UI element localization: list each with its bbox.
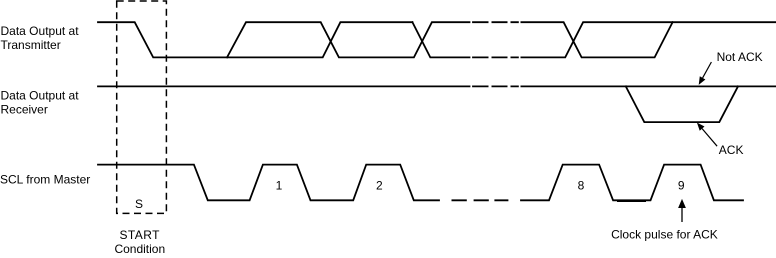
svg-text:2: 2 (376, 178, 383, 192)
wire: SDA receiver high line right section (Not ACK level) (521, 85, 776, 87)
svg-text:Clock pulse for ACK: Clock pulse for ACK (611, 228, 718, 242)
svg-text:ACK: ACK (719, 143, 744, 157)
svg-text:Transmitter: Transmitter (1, 38, 61, 52)
wire: SDA transmitter high rail, START fall, low-to-high crossings (98, 22, 412, 57)
wire: SCL high start, clock pulses 1 and 2 (98, 165, 439, 201)
wire: SDA receiver ACK low pulse (626, 86, 738, 122)
arrow: clock pulse for ACK pointer (678, 199, 686, 222)
svg-text:Data Output at: Data Output at (1, 89, 80, 103)
svg-text:8: 8 (578, 178, 585, 192)
wire: SDA transmitter crossover-2 falling edge (412, 22, 469, 57)
wire: SDA transmitter last bit, release rise for ACK (521, 22, 672, 57)
wire: SDA receiver high line left section (98, 85, 470, 87)
wire: SDA transmitter high-rail continuation dashes (473, 21, 518, 23)
label: Data Output at Transmitter (1, 24, 80, 52)
svg-text:SCL from Master: SCL from Master (0, 173, 90, 187)
wire: SCL low continuation dashes (452, 199, 507, 201)
wire: SCL low overlap segment between pulses 8 and 9 (617, 200, 646, 202)
label: START Condition (114, 228, 165, 256)
svg-text:9: 9 (678, 178, 685, 192)
svg-text:Not ACK: Not ACK (717, 50, 763, 64)
svg-text:START: START (119, 228, 160, 242)
wire: SCL clock pulses 8 and 9 (521, 165, 743, 201)
label: Data Output at Receiver (1, 89, 80, 117)
wire: SDA transmitter low rail with bit-1 rise and crossover falls (227, 22, 470, 57)
wire: SDA transmitter low-rail continuation dashes (473, 56, 518, 58)
wire: SDA transmitter low rail crossover-3 rise and final high line (521, 22, 776, 57)
svg-text:Condition: Condition (114, 242, 165, 256)
arrow: Not ACK pointer (699, 62, 712, 85)
START condition dashed box (117, 1, 167, 213)
arrow: ACK pointer (697, 123, 717, 147)
svg-text:1: 1 (276, 178, 283, 192)
svg-text:S: S (135, 197, 143, 211)
svg-text:Data Output at: Data Output at (1, 24, 80, 38)
svg-text:Receiver: Receiver (1, 103, 48, 117)
wire: SDA receiver continuation dashes (473, 85, 518, 87)
